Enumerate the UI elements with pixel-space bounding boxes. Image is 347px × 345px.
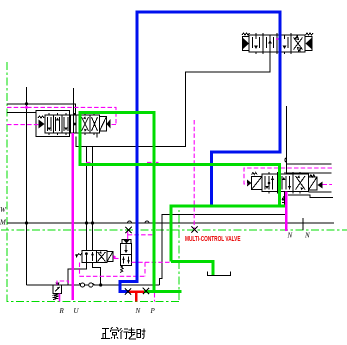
valve LV outer block box — [36, 110, 70, 136]
magenta dash at TV center — [276, 38, 279, 40]
dashed magenta right stub y=184.5 — [323, 184, 333, 186]
wire black top-left horizontal y=103.8 — [7, 104, 76, 115]
dashed magenta pilot top-left y=107.4 — [7, 107, 116, 124]
dashed magenta vertical x=79 — [79, 263, 81, 277]
node dot magenta x=26.5 y=107.4 — [25, 106, 28, 109]
solenoid TV left — [242, 33, 250, 51]
wire magenta thin vertical at relief valve — [59, 294, 61, 302]
wire green horizontal y=261.5 to tank — [171, 260, 215, 263]
tank symbol — [207, 272, 230, 276]
jump hook on x=286.3 at green crossing — [285, 158, 287, 163]
wire magenta vertical x=286.3 — [285, 192, 288, 232]
dashed magenta vertical x=145 — [144, 262, 146, 276]
solenoid RV2 right — [309, 175, 323, 190]
wire black tick x=303 — [302, 218, 304, 230]
svg-text:MULTI-CONTROL VALVE: MULTI-CONTROL VALVE — [185, 234, 241, 243]
svg-text:N: N — [287, 232, 293, 240]
coupler circle 2 — [89, 283, 94, 287]
wire black vertical x=162 down to y=278.5 — [160, 223, 163, 285]
wire black V1 left drain — [68, 263, 87, 286]
dashed magenta pilot y=124.6 — [7, 124, 39, 126]
svg-text:P: P — [150, 307, 156, 315]
valve TV top directional valve body — [249, 33, 305, 54]
wire blue vertical x=280 — [279, 11, 282, 153]
wire green vertical x=80 — [79, 111, 82, 166]
wire green vertical x=171 — [170, 205, 173, 262]
solenoid RV2 left — [247, 173, 262, 190]
node dot x=26.5 y=103.8 — [25, 102, 28, 105]
wire black right horizontal y=173 — [286, 172, 331, 174]
wire magenta main vertical x=72.7 — [71, 133, 74, 300]
boundary dash-dot bottom horizontal y=301 — [7, 301, 179, 303]
dashed magenta vertical x=154.5 bottom — [154, 293, 156, 302]
solenoid V1 right box — [107, 252, 113, 262]
wire green horizontal y=206 — [170, 205, 286, 208]
pilot arrow magenta V1 — [113, 255, 116, 259]
dashed magenta V1 to V2 — [114, 258, 121, 260]
valve LV body — [45, 113, 100, 138]
valve RV2 right directional valve body — [262, 172, 309, 194]
wire black horizontal y=214.5 — [162, 215, 286, 224]
wire green vertical x=213 into tank — [212, 260, 215, 275]
wire black vertical x=286.3 upper — [285, 106, 287, 174]
x mark 2 on boundary — [191, 226, 197, 232]
dashed magenta y=276.3 — [80, 275, 146, 277]
x mark 3 at blue end — [125, 288, 131, 294]
node dot x=92.5 y=223 — [91, 221, 94, 224]
wire black horizontal y=112.3 — [7, 111, 36, 113]
valve V2 vertical valve — [121, 240, 132, 266]
wire black vertical x=86.5 — [86, 147, 88, 251]
wire green horizontal y=164.5 — [79, 163, 280, 166]
wire blue vertical x=211.5 — [210, 152, 213, 207]
wire black vertical x=92.5 — [92, 147, 94, 251]
svg-text:R: R — [59, 307, 65, 315]
dashed magenta y=262.3 — [132, 261, 172, 263]
dashed magenta pilot y=162.2 under green — [86, 161, 159, 163]
dashed magenta vertical x=194.2 — [193, 120, 195, 229]
dashed magenta relief pilot box — [57, 281, 69, 285]
wire black right horizontal y=196.5 — [288, 195, 333, 198]
wire black V1 right drain — [93, 263, 101, 286]
wire black right horizontal y=164 — [286, 163, 331, 165]
x mark 1 on boundary — [125, 227, 131, 233]
wire black vertical x=73.5 above left valve — [73, 88, 75, 117]
boundary dash-dot left vertical — [6, 62, 8, 302]
svg-text:N: N — [135, 307, 141, 315]
wire green long vertical x=154 — [153, 111, 156, 293]
wire blue hook bottom — [120, 282, 139, 292]
coupler circle 1 — [79, 283, 85, 287]
x mark 4 at red/green — [143, 288, 149, 294]
check/spring symbol below RV2 — [282, 192, 287, 206]
solenoid LV right box — [100, 117, 111, 132]
node dot x=26.5 y=223 — [25, 221, 28, 224]
wire black left valve line to top valve port — [76, 52, 270, 147]
wire blue horizontal y=152 — [210, 151, 282, 154]
node dot x=86.5 y=223 — [85, 221, 88, 224]
svg-text:N: N — [304, 232, 310, 240]
caption 正常行走时 drawn strokes — [101, 327, 146, 339]
boundary dash-dot vertical x=179 — [178, 210, 180, 300]
wire black long horizontal y=223 with jump bumps — [7, 222, 334, 224]
wire blue pilot main: top horizontal y=12 — [136, 11, 281, 14]
wire green bottom horizontal y=291.5 — [144, 290, 182, 293]
wire red tee at bottom — [129, 292, 144, 302]
solenoid LV left — [38, 116, 45, 129]
wire blue long vertical x=137 — [136, 11, 139, 282]
solenoid TV right — [305, 33, 313, 51]
wire black bottom horizontal y=285 — [27, 284, 160, 286]
spring V2 bottom — [120, 266, 123, 273]
spring V1 left — [76, 253, 82, 257]
wire black long vertical x=26.5 with corner to relief valve — [26, 87, 28, 285]
dashed magenta from x mark down to V2 — [128, 231, 154, 240]
valve V1 pilot solenoid valve body — [82, 251, 107, 263]
boundary dash-dot horizontal y=230 — [1, 229, 347, 231]
wire green pilot: top bridge horizontal y=112 — [79, 111, 156, 114]
dashed magenta right valve loop — [244, 168, 332, 184]
wire green vertical x=279.5 — [278, 163, 281, 206]
node dot x=101 y=285 — [99, 283, 102, 286]
relief valve RV — [53, 283, 62, 294]
spring RV below — [53, 294, 59, 300]
wire black right horizontal y=192 — [309, 191, 332, 193]
